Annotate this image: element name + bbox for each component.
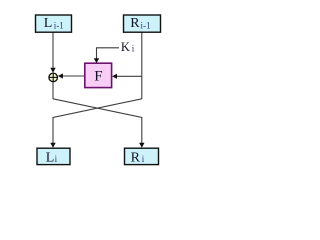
box R i: [125, 148, 159, 165]
diagonal wire right vertical to L i: [53, 99, 142, 144]
svg-text:R: R: [131, 150, 141, 165]
svg-text:K: K: [121, 40, 130, 54]
wire from K i into F top: [97, 48, 120, 60]
svg-text:i-1: i-1: [54, 21, 64, 31]
diagonal wire XOR to R i: [53, 99, 142, 144]
box L i: [37, 148, 70, 165]
wire below XOR: [52, 82, 54, 99]
F function box: [85, 63, 112, 87]
arrowhead into XOR right side: [58, 73, 63, 78]
svg-text:i-1: i-1: [141, 21, 151, 31]
svg-text:L: L: [44, 16, 53, 31]
svg-text:R: R: [130, 16, 140, 31]
box R i-1: [124, 15, 161, 32]
svg-text:F: F: [94, 68, 102, 84]
wire from right vertical to F box: [114, 75, 142, 77]
arrowhead into F top: [94, 58, 99, 63]
arrowhead into L i box: [50, 143, 55, 148]
arrowhead into XOR top: [50, 68, 55, 73]
arrowhead into F right side: [112, 74, 117, 79]
wire from R i-1 down (right vertical): [141, 32, 143, 100]
XOR node: [49, 73, 58, 82]
wire from F box to XOR: [60, 75, 85, 77]
svg-text:L: L: [46, 150, 55, 165]
box L i-1: [36, 15, 72, 32]
arrowhead into R i box: [139, 143, 144, 148]
label K i: [121, 40, 135, 54]
wire from L i-1 down to XOR: [52, 32, 54, 70]
